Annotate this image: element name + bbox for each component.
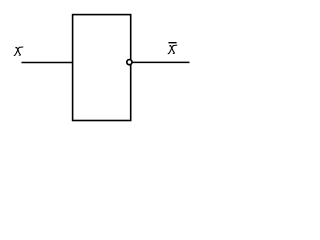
wire input x bbox=[22, 62, 73, 64]
overline of xbar bbox=[168, 42, 176, 44]
wire output xbar bbox=[131, 61, 190, 63]
inversion bubble bbox=[127, 60, 132, 65]
node xbar (output label) bbox=[168, 45, 177, 54]
node x (input label) bbox=[14, 47, 23, 56]
inverter body U1 (rectangle) bbox=[73, 15, 131, 121]
